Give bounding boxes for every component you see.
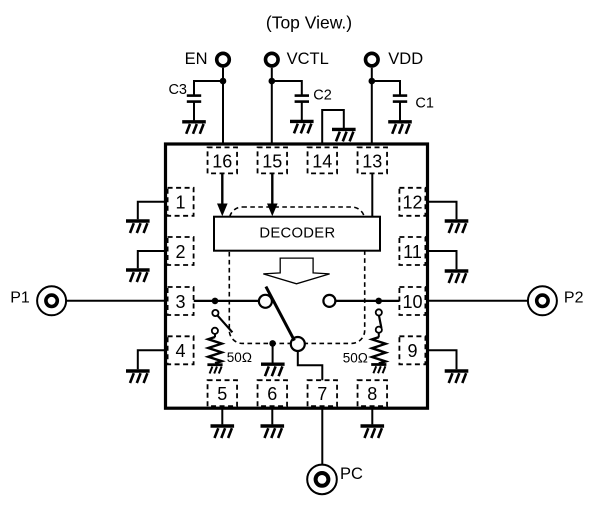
- pin 9: [399, 336, 425, 364]
- svg-text:6: 6: [267, 384, 277, 404]
- wire right shunt stem: [378, 333, 380, 338]
- port P1: [10, 286, 66, 315]
- switch pole contact: [291, 337, 305, 351]
- ground pin5: [211, 426, 235, 438]
- pin 8: [358, 380, 388, 406]
- wire pin8 to ground: [371, 410, 373, 425]
- svg-text:50Ω: 50Ω: [227, 350, 252, 365]
- node mid ground junction: [269, 340, 276, 347]
- block arrow decoder to switch: [263, 258, 329, 284]
- resistor 50ohm left: [208, 337, 222, 363]
- IC package outline: [166, 144, 428, 408]
- ground pin2: [126, 270, 150, 282]
- terminal EN: [185, 50, 230, 68]
- ground pin11: [445, 271, 469, 283]
- wire pin2 to ground: [138, 251, 166, 268]
- ground shunt left: [207, 365, 222, 374]
- svg-text:PC: PC: [340, 465, 363, 483]
- ground mid: [261, 364, 285, 376]
- svg-text:DECODER: DECODER: [259, 226, 335, 242]
- wire pin14 to ground: [322, 110, 344, 147]
- wire left shunt stem: [214, 334, 216, 337]
- svg-text:8: 8: [367, 384, 377, 404]
- switch throw contact left: [259, 295, 272, 308]
- svg-text:1: 1: [175, 193, 185, 213]
- node EN junction: [220, 78, 227, 85]
- pin 12: [399, 188, 425, 216]
- svg-text:P1: P1: [10, 289, 30, 306]
- svg-text:P2: P2: [564, 289, 584, 306]
- wire pin1 to ground: [138, 202, 166, 220]
- wire pin16 to decoder with arrow: [217, 173, 228, 216]
- pin 1: [168, 188, 194, 216]
- wire VDD to pin13: [371, 68, 373, 148]
- capacitor C1: [372, 81, 407, 120]
- ground C2: [290, 121, 314, 133]
- pin 16: [208, 147, 238, 173]
- svg-text:12: 12: [402, 193, 422, 213]
- ground shunt right: [371, 365, 386, 374]
- wire pin12 to ground: [428, 202, 457, 220]
- ground pin8: [361, 426, 385, 438]
- svg-text:C2: C2: [313, 88, 332, 104]
- ground pin6: [261, 426, 285, 438]
- svg-text:EN: EN: [185, 50, 208, 68]
- resistor 50ohm right: [372, 337, 386, 363]
- pin 10: [399, 287, 425, 315]
- terminal VDD: [366, 50, 424, 68]
- wire pin11 to ground: [428, 251, 457, 269]
- shunt switch right lever: [379, 315, 382, 328]
- decoder block U1: [214, 217, 380, 251]
- svg-text:10: 10: [402, 292, 422, 312]
- pin 7: [308, 380, 338, 406]
- wire mid junction to ground: [272, 343, 274, 362]
- node pin10 shunt junction: [375, 298, 382, 305]
- wire pin4 to ground: [138, 350, 166, 369]
- svg-text:C1: C1: [415, 96, 434, 112]
- svg-text:C3: C3: [168, 82, 187, 98]
- pin 5: [208, 380, 238, 406]
- port PC: [307, 465, 363, 495]
- shunt switch left top contact: [212, 310, 218, 316]
- svg-text:5: 5: [217, 384, 227, 404]
- wire VCTL to pin15: [271, 68, 273, 148]
- wire pin13 to decoder: [371, 173, 373, 216]
- switch throw contact right: [323, 295, 335, 307]
- wire pin7 to PC: [321, 410, 323, 465]
- wire throw to pin10: [335, 300, 399, 302]
- wire pin3 to switch throw: [194, 300, 259, 302]
- shunt switch right top contact: [376, 309, 382, 315]
- switch arm: [266, 287, 295, 341]
- ground C1: [388, 122, 412, 134]
- pin 6: [258, 380, 288, 406]
- wire pin9 to ground: [428, 350, 457, 369]
- wire pin15 to decoder with arrow: [267, 173, 278, 216]
- shunt switch left lever: [217, 315, 232, 332]
- ground pin14: [332, 129, 356, 141]
- wire pin10 to P2: [428, 300, 528, 302]
- wire EN to pin16: [222, 68, 224, 148]
- shunt switch right bottom contact: [376, 327, 382, 333]
- port P2: [528, 286, 584, 315]
- svg-text:4: 4: [175, 341, 185, 361]
- svg-text:2: 2: [175, 242, 185, 262]
- node VCTL junction: [269, 78, 276, 85]
- svg-text:50Ω: 50Ω: [343, 350, 368, 365]
- pin 3: [168, 287, 194, 315]
- pin 14: [308, 147, 338, 173]
- ground pin4: [126, 371, 150, 383]
- pin 11: [399, 237, 425, 265]
- svg-text:VDD: VDD: [388, 50, 423, 68]
- svg-text:11: 11: [403, 242, 422, 262]
- svg-text:VCTL: VCTL: [287, 50, 329, 68]
- capacitor C2: [272, 81, 309, 120]
- svg-text:7: 7: [317, 384, 327, 404]
- pin 15: [258, 147, 288, 173]
- capacitor C3: [187, 81, 223, 120]
- ground C3: [182, 122, 206, 134]
- node pin3 shunt junction: [212, 298, 219, 305]
- ground pin1: [126, 221, 150, 233]
- svg-text:13: 13: [362, 152, 382, 172]
- shunt switch left bottom contact: [212, 328, 218, 334]
- svg-text:16: 16: [212, 152, 232, 172]
- wire pin6 to ground: [271, 410, 273, 425]
- node VDD junction: [369, 78, 376, 85]
- svg-text:14: 14: [312, 152, 332, 172]
- pin 13: [358, 147, 388, 173]
- terminal VCTL: [266, 50, 329, 68]
- switch region dashed boundary: [229, 207, 364, 343]
- svg-text:3: 3: [175, 292, 185, 312]
- svg-text:9: 9: [407, 341, 417, 361]
- svg-text:15: 15: [262, 152, 282, 172]
- ground pin9: [445, 371, 469, 383]
- svg-text:(Top View.): (Top View.): [266, 12, 352, 32]
- wire P1 to pin3: [66, 300, 165, 302]
- pin 4: [168, 336, 194, 364]
- wire pin5 to ground: [221, 410, 223, 425]
- wire pole to pin7: [298, 351, 323, 380]
- ground pin12: [445, 221, 469, 233]
- pin 2: [168, 237, 194, 265]
